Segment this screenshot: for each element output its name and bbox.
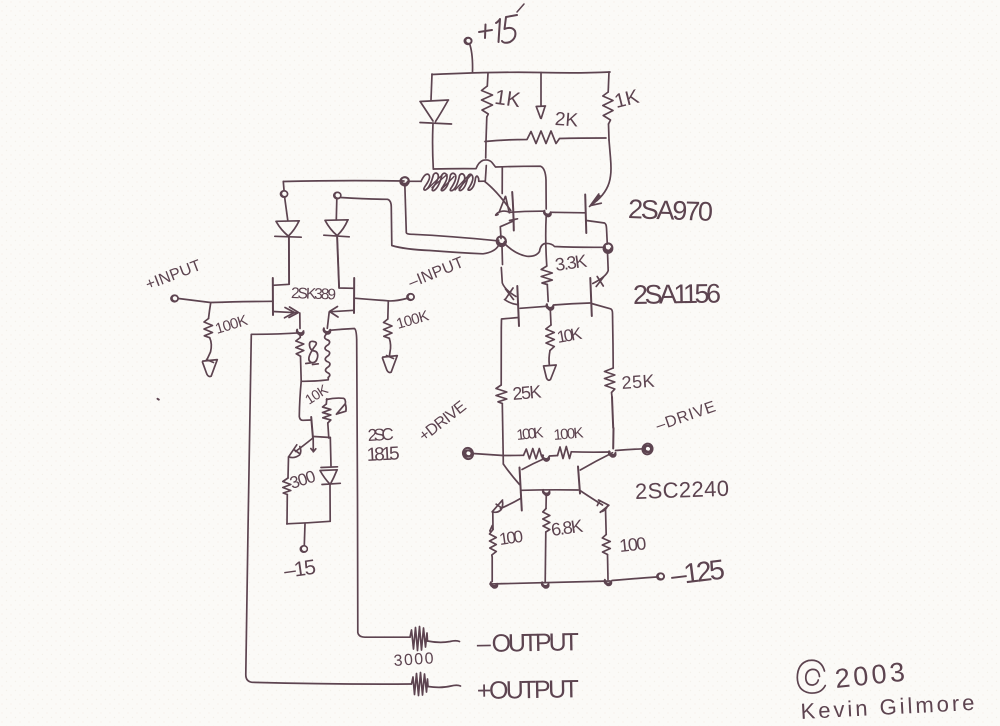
node M scribble xyxy=(605,580,612,586)
wire stub to -15 terminal xyxy=(303,524,306,546)
transistor Q3 emitter arrow x xyxy=(505,288,518,305)
resistor R 100K#1 zigzag xyxy=(204,319,213,338)
transistor Q2 collector xyxy=(587,221,608,245)
resistor R 6.8K zigzag xyxy=(543,509,550,533)
wire squiggle end short xyxy=(479,180,485,182)
transistor Q3 emitter path from node B xyxy=(501,246,516,297)
transistor Q6 emitter xyxy=(580,491,603,506)
wire node B onward wavy to node D with hump xyxy=(506,243,605,256)
transistor Q7 2SC1815 bar xyxy=(311,417,313,439)
resistor R 100K#2 lead xyxy=(387,301,390,319)
resistor R 25K left zigzag xyxy=(496,385,507,404)
resistor R 100K drive-right zigzag xyxy=(558,447,572,459)
jfet U1 2SK389 left gate bar xyxy=(272,278,274,315)
resistor R 1K left, zigzag xyxy=(482,86,493,117)
wire node A down then right to node B xyxy=(405,184,498,241)
jfet U1 left source with arrow xyxy=(273,307,300,329)
resistor R out- squiggle xyxy=(410,627,428,651)
ground gnd3 small xyxy=(544,365,557,380)
wire base rail y305 xyxy=(520,303,590,308)
svg-text:100K: 100K xyxy=(553,424,584,444)
svg-text:–15: –15 xyxy=(282,556,317,583)
node E scribble (left source) xyxy=(297,330,304,336)
resistor R source-left zigzag xyxy=(296,334,304,356)
svg-text:100: 100 xyxy=(618,533,647,556)
transistor Q5 collector xyxy=(522,459,545,470)
wire 1K right down to Q2 emitter xyxy=(597,140,611,201)
node A scribble xyxy=(399,176,409,186)
wire D1 down xyxy=(432,124,435,170)
trimmer wiper from rail xyxy=(536,73,545,119)
wire D3 top lead xyxy=(335,199,338,220)
resistor R 1K left, lead xyxy=(486,73,489,86)
transistor Q5 emitter xyxy=(501,499,521,509)
resistor R 1K right, zigzag xyxy=(603,92,613,124)
wire top rail xyxy=(432,72,610,75)
wire 100K to -drive node xyxy=(571,451,610,453)
terminal -drive xyxy=(641,442,654,456)
resistor R 100K#1 lead xyxy=(209,303,211,319)
wire D2 to left drain xyxy=(288,238,290,285)
svg-text:25K: 25K xyxy=(512,382,543,404)
jfet U1 left drain xyxy=(273,237,289,285)
svg-text:2K: 2K xyxy=(554,109,579,132)
resistor R 100K drive-left zigzag xyxy=(524,449,544,459)
resistor R 100 left zigzag xyxy=(490,526,497,558)
svg-text:–125: –125 xyxy=(669,554,726,591)
node B scribble xyxy=(495,235,507,247)
resistor R 10K trim zigzag xyxy=(323,404,331,423)
tick near Q1 xyxy=(510,219,518,221)
diode D1 xyxy=(420,100,452,124)
wire bottom of 2SC1815 cell xyxy=(287,521,330,524)
resistor R 100K#2 lead2 xyxy=(389,338,390,355)
resistor R 3.3K zigzag xyxy=(541,266,552,285)
resistor R 10K trim lead2 xyxy=(328,423,329,438)
squiggle extra slashes xyxy=(428,175,471,191)
resistor R 10K mid lead2 xyxy=(548,351,551,365)
diode D4 lead2 xyxy=(329,485,331,522)
resistor R 300 zigzag xyxy=(283,478,291,495)
wire Q6 emitter to 100 right xyxy=(605,509,608,535)
wire Q5 emitter to 100 left xyxy=(492,513,494,530)
trimmer loop and arrow xyxy=(327,398,347,414)
wire Q3 collector down to 25K left xyxy=(500,328,502,385)
resistor R 3.3K lead xyxy=(546,216,547,266)
ground gnd1 xyxy=(202,360,217,377)
wire +drive to junction xyxy=(473,454,503,456)
resistor R 100K#2 zigzag xyxy=(384,319,393,338)
wire D1 node to right, y169 with hump xyxy=(433,160,546,209)
svg-text:– OUTPUT: – OUTPUT xyxy=(477,628,579,658)
node F scribble (right source) xyxy=(324,328,331,334)
resistor R 1K right, lead xyxy=(607,72,610,92)
diode D4 xyxy=(320,467,340,485)
resistor R 100K drive-left lead xyxy=(503,454,523,456)
label +15 xyxy=(479,4,524,43)
transistor Q6 emitter arrow xyxy=(597,500,609,512)
wire diagonal to Q1 base xyxy=(485,181,511,210)
diode D4 top lead xyxy=(329,438,332,467)
wire +15 to rail xyxy=(470,45,473,72)
wire Q1 to node C xyxy=(510,211,544,212)
terminal -125 xyxy=(657,572,665,580)
jfet U1 right gate bar xyxy=(353,278,355,313)
terminal +drive xyxy=(462,447,475,460)
transistor Q5 emitter arrow xyxy=(492,500,503,512)
wire emitter arrow to 300 xyxy=(287,457,290,478)
svg-text:1815: 1815 xyxy=(366,443,400,466)
transistor Q7 collector wire xyxy=(314,437,331,438)
transistor Q5 2SC2240 bar xyxy=(520,468,522,511)
wire joining resistor bottoms xyxy=(301,356,329,381)
vertical from resistor bottoms down to Q7 xyxy=(299,381,311,420)
wire +drive junction to Q5 base xyxy=(503,464,519,485)
wire bottom rail xyxy=(490,581,610,584)
transistor Q7 emitter arrow xyxy=(289,445,301,458)
svg-text:25K: 25K xyxy=(621,371,655,393)
wire out+ wavy xyxy=(428,685,461,687)
wire feedback left: source node to far left down xyxy=(246,333,412,684)
wire y181 horizontal left xyxy=(283,180,404,183)
diode D3 xyxy=(324,220,349,237)
resistor R 100 right lead2 xyxy=(607,555,610,580)
transistor Q7 emitter xyxy=(296,439,313,452)
resistor R 100 right zigzag xyxy=(602,535,610,555)
transistor Q5 base rail xyxy=(522,489,579,491)
transistor Q3 2SA1156 bar xyxy=(517,286,519,326)
pen speck xyxy=(158,398,159,401)
resistor R 1K left, lead2 xyxy=(485,117,488,141)
resistor R 100 left lead2 xyxy=(491,557,493,582)
terminal +input xyxy=(171,294,179,302)
wire 25K left down to +drive junction xyxy=(502,404,503,465)
resistor R out+ squiggle xyxy=(412,673,429,696)
glyph 8 scrawl xyxy=(309,341,318,362)
node K scribble xyxy=(491,582,498,588)
wire D3 circle right then down to node B xyxy=(341,198,499,254)
node D scribble xyxy=(603,243,614,254)
wire 25K right down to -drive node xyxy=(612,397,614,449)
svg-text:2SA970: 2SA970 xyxy=(628,194,714,227)
svg-text:2SA1156: 2SA1156 xyxy=(633,278,722,310)
terminal +15 xyxy=(464,37,472,45)
resistor R source-right coil xyxy=(325,334,330,378)
resistor R 2K horizontal xyxy=(485,131,606,144)
transistor Q6 2SC2240 bar xyxy=(578,467,580,494)
wire +input to gate xyxy=(179,299,273,303)
node J scribble (6.8K top) xyxy=(543,490,550,496)
transistor Q1 2SA970 bar xyxy=(512,192,514,231)
transistor Q4 2SA1156 bar xyxy=(590,278,592,316)
transistor Q6 collector xyxy=(580,453,612,470)
wire rail to diode D1 xyxy=(431,74,432,100)
circle junction above D3 xyxy=(334,191,342,199)
node G scribble (3.3K bottom) xyxy=(547,304,554,310)
transistor Q3 collector xyxy=(501,318,518,329)
wire feedback right: right source node down xyxy=(330,329,411,638)
transistor Q1 emitter arrow xyxy=(496,197,510,216)
svg-text:2SK389: 2SK389 xyxy=(291,285,337,304)
wire branch to Q1 emitter xyxy=(501,167,503,194)
resistor R 1K right, lead2 xyxy=(608,124,611,140)
transistor Q2 emitter arrow xyxy=(590,194,602,207)
svg-text:+OUTPUT: +OUTPUT xyxy=(477,675,579,705)
node H scribble (between 100Ks) xyxy=(542,455,549,461)
circle junction above D2 xyxy=(280,190,288,198)
resistor R 10K mid zigzag xyxy=(546,325,555,351)
transistor Q4 emitter path from node D xyxy=(593,252,608,284)
resistor R 10K mid lead xyxy=(549,310,552,326)
svg-text:2SC: 2SC xyxy=(367,425,394,445)
svg-text:100K: 100K xyxy=(516,424,545,444)
resistor R 300 lead2 xyxy=(286,495,288,525)
jfet U1 right drain xyxy=(337,238,354,289)
terminal -15 xyxy=(300,545,308,553)
jfet U1 right source with arrow xyxy=(327,307,354,329)
resistor R 10K trim lead xyxy=(325,399,328,404)
svg-text:100: 100 xyxy=(498,527,524,549)
node I corner scribble xyxy=(609,451,616,457)
terminal -input xyxy=(407,293,415,301)
copyright symbol xyxy=(797,660,825,693)
transistor Q1 collector xyxy=(500,221,514,239)
resistor R 100K#1 lead2 xyxy=(207,338,211,360)
svg-text:1K: 1K xyxy=(493,86,522,112)
wire D3 to right drain xyxy=(337,237,339,288)
transistor Q4 emitter arrow x xyxy=(596,277,603,287)
resistor R squiggle (scribbled) xyxy=(409,173,479,191)
diode D2 xyxy=(275,221,301,237)
transistor Q7 stub with small arrow xyxy=(311,439,316,452)
transistor Q2 2SA970 bar xyxy=(585,195,586,234)
wire corner into D2 circle xyxy=(283,182,288,221)
resistor R 25K right zigzag xyxy=(605,368,615,397)
wire node C to Q2 base xyxy=(552,211,586,214)
transistor Q4 collector xyxy=(592,304,614,369)
wire out- wavy xyxy=(428,641,460,643)
svg-text:2SC2240: 2SC2240 xyxy=(635,476,730,504)
ground gnd2 xyxy=(382,356,397,373)
resistor R 100K drive-right lead xyxy=(550,455,558,458)
wire -drive node to terminal xyxy=(616,449,643,451)
wire vertical from 2K junction down xyxy=(485,142,486,182)
resistor R 3.3K lead2 xyxy=(546,285,549,302)
dash pair xyxy=(306,363,319,365)
resistor R 6.8K lead2 xyxy=(544,532,547,583)
node L scribble xyxy=(542,582,549,588)
wire 6.8K lead xyxy=(545,494,547,509)
wire rail to -125 terminal xyxy=(612,577,657,581)
wire -input to gate xyxy=(354,298,406,301)
node C scribble xyxy=(544,211,551,217)
